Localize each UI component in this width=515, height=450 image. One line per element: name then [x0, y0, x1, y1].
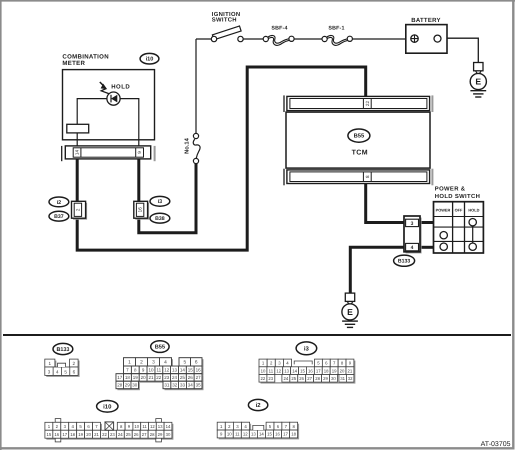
svg-text:12: 12: [164, 368, 170, 373]
svg-text:29: 29: [125, 383, 131, 388]
svg-text:25: 25: [180, 375, 186, 380]
connector view i10 pin grid: [45, 419, 174, 442]
svg-text:17: 17: [117, 375, 123, 380]
switch contacts: [440, 219, 476, 251]
svg-text:4: 4: [56, 369, 59, 374]
svg-text:16: 16: [138, 207, 143, 213]
svg-text:4: 4: [164, 360, 167, 366]
svg-text:B38: B38: [155, 216, 165, 222]
combination meter box: [63, 70, 155, 140]
svg-text:SWITCH: SWITCH: [212, 16, 237, 23]
svg-text:19: 19: [332, 368, 337, 373]
svg-text:18: 18: [70, 432, 75, 437]
svg-text:18: 18: [125, 375, 131, 380]
svg-text:B55: B55: [354, 134, 365, 140]
resistor (meter lamp series): [67, 124, 89, 133]
svg-text:14: 14: [292, 368, 297, 373]
fuse SBF-4: [263, 35, 294, 45]
svg-text:11: 11: [235, 432, 240, 437]
svg-text:26: 26: [299, 376, 304, 381]
svg-text:19: 19: [133, 375, 139, 380]
svg-text:29: 29: [158, 432, 163, 437]
svg-text:14: 14: [166, 424, 171, 429]
svg-text:18: 18: [324, 368, 329, 373]
svg-text:19: 19: [78, 432, 83, 437]
connector view i10 oval: [97, 401, 118, 413]
svg-text:31: 31: [340, 376, 345, 381]
svg-text:3: 3: [411, 221, 414, 227]
svg-text:9: 9: [137, 151, 142, 154]
ground E (power-hold switch): [342, 293, 358, 327]
svg-text:34: 34: [188, 383, 194, 388]
TCM connector oval B55 (schematic): [348, 129, 370, 142]
svg-text:14: 14: [180, 368, 186, 373]
svg-text:30: 30: [331, 376, 336, 381]
svg-text:21: 21: [148, 375, 154, 380]
svg-text:31: 31: [164, 383, 170, 388]
wire: B133 pin 4 to ground (heavy): [350, 247, 405, 293]
svg-text:20: 20: [340, 368, 345, 373]
connector view i2 pin grid: [217, 422, 299, 439]
svg-text:BATTERY: BATTERY: [411, 17, 440, 24]
svg-text:i10: i10: [146, 56, 154, 63]
connector i2/B37 pin 2 (schematic): [72, 201, 88, 219]
svg-text:22: 22: [261, 376, 266, 381]
svg-text:16: 16: [54, 432, 59, 437]
svg-text:13: 13: [251, 432, 256, 437]
divider line between schematic and connector views: [3, 334, 511, 336]
connector oval B133 (schematic): [394, 255, 415, 266]
svg-text:21: 21: [348, 368, 353, 373]
svg-text:17: 17: [283, 432, 288, 437]
svg-text:3: 3: [152, 360, 155, 366]
svg-text:28: 28: [117, 383, 123, 388]
TCM top connector strip (pin 22): [284, 95, 432, 112]
svg-text:POWER: POWER: [436, 208, 451, 213]
svg-text:TCM: TCM: [352, 149, 368, 156]
wire: top feed line through switch and fuses to battery: [196, 38, 406, 40]
svg-text:5: 5: [183, 360, 186, 366]
svg-text:SBF-4: SBF-4: [271, 25, 287, 31]
svg-text:15: 15: [267, 432, 272, 437]
svg-text:28: 28: [150, 432, 155, 437]
svg-text:26: 26: [188, 375, 194, 380]
svg-text:22: 22: [102, 432, 107, 437]
svg-text:15: 15: [300, 368, 305, 373]
svg-text:HOLD SWITCH: HOLD SWITCH: [435, 193, 480, 200]
svg-text:SBF-1: SBF-1: [328, 25, 344, 31]
svg-text:B37: B37: [54, 214, 64, 220]
wire: ignition switch branch to No.14 fuse (vertical): [195, 39, 197, 133]
svg-text:33: 33: [180, 383, 186, 388]
svg-text:10: 10: [227, 432, 232, 437]
svg-text:12: 12: [276, 368, 281, 373]
svg-text:23: 23: [164, 375, 170, 380]
svg-text:17: 17: [62, 432, 67, 437]
svg-text:11: 11: [269, 368, 274, 373]
svg-text:32: 32: [348, 376, 353, 381]
battery: [406, 25, 447, 54]
connector oval B37 (schematic): [49, 211, 69, 221]
ground E (battery): [470, 63, 486, 98]
svg-text:16: 16: [196, 368, 202, 373]
svg-text:30: 30: [132, 383, 138, 388]
svg-text:16: 16: [308, 368, 313, 373]
svg-text:13: 13: [172, 368, 178, 373]
meter connector strip (pins 14 / 9): [62, 146, 155, 161]
wire: meter pin 9 to fuse No.14 (heavy): [139, 159, 196, 233]
connector view B133 pin grid: [45, 359, 80, 377]
svg-text:21: 21: [94, 432, 99, 437]
svg-text:i10: i10: [103, 403, 112, 410]
svg-text:2: 2: [75, 208, 80, 211]
svg-text:AT-03705: AT-03705: [481, 441, 511, 448]
svg-text:2: 2: [73, 361, 76, 366]
svg-text:POWER &: POWER &: [435, 185, 466, 192]
svg-text:OFF: OFF: [455, 208, 463, 213]
wire: battery to ground: [447, 38, 478, 62]
svg-text:27: 27: [142, 432, 147, 437]
svg-text:6: 6: [195, 360, 198, 366]
svg-text:i3: i3: [158, 199, 163, 205]
svg-text:11: 11: [156, 368, 161, 373]
svg-text:35: 35: [196, 383, 202, 388]
svg-text:6: 6: [73, 369, 76, 374]
svg-text:13: 13: [284, 368, 289, 373]
svg-text:12: 12: [243, 432, 248, 437]
svg-text:10: 10: [261, 368, 266, 373]
connector view B55 oval: [151, 341, 169, 353]
svg-text:18: 18: [291, 432, 296, 437]
svg-text:HOLD: HOLD: [111, 84, 130, 91]
svg-text:16: 16: [275, 432, 280, 437]
svg-text:No.14: No.14: [185, 137, 191, 154]
svg-text:27: 27: [196, 375, 202, 380]
svg-text:22: 22: [156, 375, 162, 380]
svg-text:4: 4: [411, 245, 414, 251]
svg-text:25: 25: [126, 432, 131, 437]
connector oval i3 (schematic): [150, 196, 170, 206]
svg-text:13: 13: [158, 424, 163, 429]
TCM box: [286, 112, 430, 168]
fuse SBF-1: [322, 35, 352, 45]
svg-text:15: 15: [47, 432, 52, 437]
svg-text:28: 28: [315, 376, 320, 381]
svg-text:25: 25: [291, 376, 296, 381]
svg-text:1: 1: [128, 360, 131, 366]
svg-text:12: 12: [150, 424, 155, 429]
svg-text:METER: METER: [62, 60, 85, 67]
connector oval B38 (schematic): [150, 213, 170, 223]
wire: B133 pin 3 to power-hold switch (heavy): [419, 221, 434, 224]
wire: TCM pin 8 to B133 pin 3 (heavy): [366, 184, 405, 223]
svg-text:i2: i2: [256, 402, 262, 409]
svg-text:E: E: [347, 307, 353, 317]
connector view B133 oval: [53, 343, 73, 354]
power and hold switch contact table: [434, 202, 484, 253]
svg-text:23: 23: [268, 376, 273, 381]
svg-text:30: 30: [166, 432, 171, 437]
connector B133 pins 3/4 (schematic): [404, 216, 422, 253]
svg-text:10: 10: [134, 424, 139, 429]
svg-text:i3: i3: [304, 345, 310, 352]
illumination arrow: [100, 82, 109, 94]
svg-text:22: 22: [365, 101, 370, 107]
svg-text:14: 14: [75, 150, 80, 156]
svg-text:B55: B55: [155, 345, 165, 351]
connector oval i2 (schematic): [49, 197, 69, 207]
wire: lamp circuit inside meter: [77, 99, 139, 147]
svg-text:1: 1: [49, 361, 52, 366]
svg-text:32: 32: [172, 383, 178, 388]
connector i3/B38 pin 16 (schematic): [134, 201, 149, 219]
svg-text:2: 2: [140, 360, 143, 366]
svg-text:8: 8: [365, 175, 370, 178]
svg-text:24: 24: [172, 375, 178, 380]
svg-text:B133: B133: [398, 259, 411, 265]
connector i10 oval (schematic): [140, 53, 159, 64]
connector view i3 oval: [296, 342, 317, 355]
HOLD indicator lamp (LED): [107, 92, 120, 105]
svg-text:23: 23: [110, 432, 115, 437]
svg-text:B133: B133: [56, 347, 69, 353]
wire: meter pin 14 to TCM pin 22 (heavy): [77, 67, 366, 250]
svg-text:3: 3: [48, 369, 51, 374]
svg-text:11: 11: [142, 424, 147, 429]
svg-text:26: 26: [134, 432, 139, 437]
connector view i3 pin grid: [259, 359, 355, 384]
svg-text:24: 24: [118, 432, 123, 437]
svg-text:14: 14: [259, 432, 264, 437]
svg-text:27: 27: [307, 376, 312, 381]
connector view i2 oval: [248, 399, 267, 410]
svg-text:10: 10: [148, 368, 154, 373]
svg-text:29: 29: [323, 376, 328, 381]
svg-text:17: 17: [316, 368, 321, 373]
TCM bottom connector strip (pin 8): [284, 169, 432, 186]
svg-text:HOLD: HOLD: [468, 208, 479, 213]
wire: B133 pin 4 to power-hold switch (heavy): [419, 246, 434, 249]
svg-text:E: E: [475, 77, 481, 87]
ignition switch (blade and contacts): [211, 26, 243, 42]
svg-text:5: 5: [64, 369, 67, 374]
svg-text:i2: i2: [57, 200, 62, 206]
svg-text:24: 24: [284, 376, 289, 381]
svg-text:20: 20: [141, 375, 147, 380]
fuse No.14: [193, 133, 200, 163]
svg-text:15: 15: [188, 368, 194, 373]
svg-text:20: 20: [86, 432, 91, 437]
connector view B55 pin grid: [116, 358, 204, 391]
